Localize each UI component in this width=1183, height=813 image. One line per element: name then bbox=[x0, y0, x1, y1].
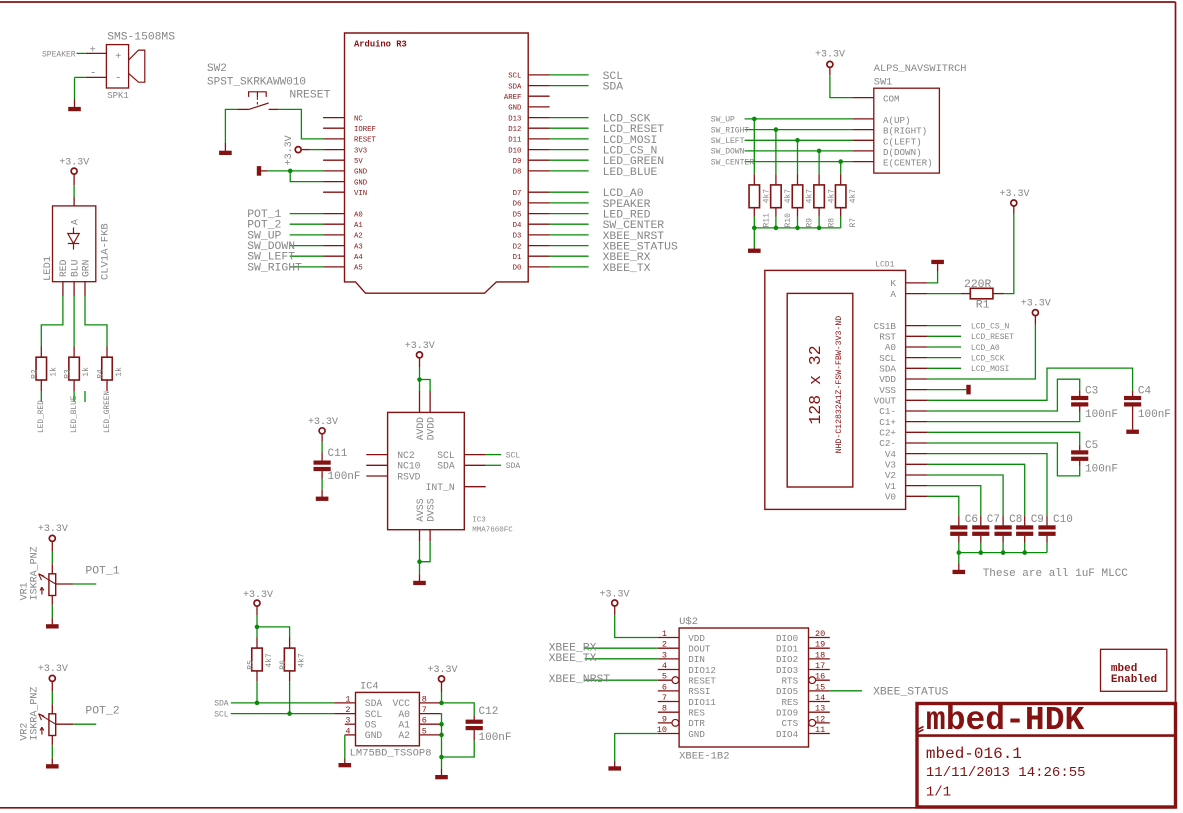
svg-text:RES: RES bbox=[688, 707, 705, 718]
wire +3.3V to VCC bbox=[441, 682, 443, 692]
wire LCD V4 to C10 bbox=[927, 454, 1047, 516]
junction bbox=[752, 226, 757, 231]
pin LED1 GRN bbox=[84, 282, 86, 296]
junction bbox=[795, 226, 800, 231]
pin SW1 row SW_CENTER bbox=[852, 161, 873, 163]
wire XBEE GND to ground bbox=[615, 734, 658, 762]
pin XBEE 20 DIO0 bbox=[809, 637, 830, 639]
svg-text:POT_2: POT_2 bbox=[85, 706, 119, 718]
wire VCC to C12 bbox=[441, 703, 474, 715]
svg-text:RTS: RTS bbox=[782, 675, 799, 686]
svg-text:K: K bbox=[890, 278, 896, 289]
svg-text:C2-: C2- bbox=[879, 438, 896, 449]
pin LCD1 VOUT bbox=[906, 399, 927, 401]
pin Arduino D2 bbox=[528, 245, 549, 247]
pin XBEE 13 DIO9 bbox=[809, 711, 830, 713]
svg-text:1: 1 bbox=[662, 629, 667, 639]
wire LED BLU to R3 bbox=[73, 296, 75, 347]
svg-text:4: 4 bbox=[662, 661, 667, 671]
pin SW1 COM bbox=[852, 97, 873, 99]
svg-text:CTS: CTS bbox=[782, 718, 799, 729]
wire R8 bottom bbox=[818, 217, 820, 228]
svg-text:A2: A2 bbox=[398, 730, 410, 741]
wire C6 bottom bbox=[958, 543, 960, 553]
wire + net label LCD_CS_N bbox=[550, 149, 589, 151]
pin XBEE 9 DTR bbox=[658, 722, 679, 724]
svg-text:SPST_SKRKAWW010: SPST_SKRKAWW010 bbox=[207, 77, 306, 89]
wire SDA bbox=[231, 702, 334, 704]
svg-text:mbed-016.1: mbed-016.1 bbox=[926, 745, 1022, 763]
svg-text:GND: GND bbox=[508, 105, 522, 113]
pin IC3 AVDD bbox=[419, 391, 421, 412]
ground bbox=[224, 143, 226, 151]
pin IC4 1 bbox=[334, 702, 355, 704]
svg-text:D3: D3 bbox=[513, 233, 522, 241]
pin XBEE 6 RSSI bbox=[658, 690, 679, 692]
wire C12 to ground rail bbox=[442, 741, 475, 758]
ground at Arduino GND bbox=[257, 166, 261, 176]
pin LCD1 V3 bbox=[906, 463, 927, 465]
wire SCL bbox=[231, 713, 334, 715]
svg-text:16: 16 bbox=[815, 672, 825, 682]
pin XBEE 4 DIO12 bbox=[658, 669, 679, 671]
svg-text:+: + bbox=[90, 46, 96, 57]
wire +3.3V to IC3 AVDD DVDD bbox=[419, 358, 421, 368]
junction bbox=[838, 159, 843, 164]
svg-text:1: 1 bbox=[345, 694, 350, 704]
wire + net label SW_LEFT bbox=[290, 255, 323, 257]
pin Arduino A2 bbox=[323, 234, 344, 236]
svg-text:COM: COM bbox=[883, 94, 900, 105]
svg-text:DIO2: DIO2 bbox=[776, 654, 798, 665]
wire + net label SW_DOWN bbox=[745, 150, 853, 152]
svg-text:SDA: SDA bbox=[506, 462, 521, 471]
svg-text:1k: 1k bbox=[49, 367, 58, 377]
svg-text:RESET: RESET bbox=[354, 137, 377, 145]
svg-text:A3: A3 bbox=[354, 243, 363, 251]
junction bbox=[817, 149, 822, 154]
svg-text:LED_GREEN: LED_GREEN bbox=[104, 391, 112, 433]
svg-text:SW_LEFT: SW_LEFT bbox=[711, 137, 745, 146]
svg-text:1k: 1k bbox=[82, 367, 91, 377]
svg-text:D10: D10 bbox=[508, 147, 521, 155]
pin XBEE 14 RES bbox=[809, 701, 830, 703]
wire + net label LCD_A0 bbox=[550, 191, 589, 193]
pin Arduino D3 bbox=[528, 234, 549, 236]
svg-text:128 x 32: 128 x 32 bbox=[806, 345, 825, 424]
supply +3.3V at Arduino 3V3 bbox=[295, 147, 301, 153]
wire A0 A1 A2 to ground bbox=[440, 714, 443, 769]
supply +3.3V at XBEE VDD bbox=[612, 600, 618, 606]
wire LCD V3 to C9 bbox=[927, 464, 1025, 516]
svg-text:D5: D5 bbox=[513, 211, 522, 219]
svg-text:C11: C11 bbox=[328, 448, 348, 460]
wire R10 bottom bbox=[775, 217, 777, 228]
svg-text:GND: GND bbox=[688, 729, 705, 740]
svg-text:C4: C4 bbox=[1138, 386, 1152, 398]
resistor R1 220R bbox=[961, 293, 970, 295]
svg-text:GND: GND bbox=[354, 169, 368, 177]
svg-text:2: 2 bbox=[662, 640, 667, 650]
pin LCD1 VDD bbox=[906, 378, 927, 380]
pin Arduino A3 bbox=[323, 245, 344, 247]
pin IC3 AVSS bbox=[419, 530, 421, 541]
svg-text:MMA7660FC: MMA7660FC bbox=[472, 526, 513, 534]
svg-text:NC2: NC2 bbox=[397, 450, 415, 461]
svg-text:IOREF: IOREF bbox=[354, 126, 376, 134]
svg-text:9: 9 bbox=[662, 714, 667, 724]
wire R5 to SDA bbox=[256, 681, 258, 703]
RGB LED LED1 CLV1A-FKB bbox=[42, 206, 111, 282]
wire R9 top bbox=[797, 140, 799, 174]
svg-text:DIN: DIN bbox=[688, 654, 705, 665]
wire LCD C1- to C3 bbox=[927, 379, 1080, 411]
ground bbox=[419, 574, 421, 581]
wire + net label SW_RIGHT bbox=[290, 266, 323, 268]
svg-text:SDA: SDA bbox=[214, 700, 229, 709]
svg-text:R1: R1 bbox=[976, 299, 990, 311]
pin XBEE 5 RESET bbox=[658, 679, 679, 681]
wire SPK1- to ground bbox=[75, 76, 86, 78]
wire + net label LCD_SCK bbox=[550, 117, 589, 119]
svg-text:LM75BD_TSSOP8: LM75BD_TSSOP8 bbox=[350, 748, 432, 760]
wire + net label POT_2 bbox=[73, 723, 96, 725]
pin Arduino IOREF bbox=[323, 127, 344, 129]
svg-text:R10: R10 bbox=[784, 213, 793, 228]
wire + net label XBEE_TX bbox=[550, 266, 589, 268]
svg-text:SCL: SCL bbox=[437, 450, 455, 461]
svg-text:NHD-C12832A1Z-FSW-FBW-3V3-ND: NHD-C12832A1Z-FSW-FBW-3V3-ND bbox=[835, 316, 844, 454]
svg-text:SCL: SCL bbox=[879, 353, 896, 364]
nav switch SW1 ALPS_NAVSWITRCH bbox=[874, 63, 967, 173]
module U$2 XBEE-1B2 bbox=[679, 616, 808, 762]
pin LCD1 V2 bbox=[906, 474, 927, 476]
svg-text:20: 20 bbox=[815, 629, 825, 639]
svg-text:+3.3V: +3.3V bbox=[284, 135, 295, 165]
capacitor C8 1uF bbox=[1002, 516, 1004, 525]
pin IC4 8 bbox=[419, 702, 440, 704]
switch SW2 SPST_SKRKAWW010 bbox=[207, 63, 306, 109]
svg-text:AVSS: AVSS bbox=[415, 498, 426, 521]
wire NRESET to Arduino RESET bbox=[278, 109, 323, 138]
svg-text:3V3: 3V3 bbox=[354, 147, 367, 155]
ground bbox=[966, 385, 970, 395]
svg-text:+3.3V: +3.3V bbox=[1021, 299, 1051, 310]
wire R1 to +3.3V bbox=[1004, 214, 1014, 294]
resistor R11 4k7 bbox=[753, 174, 755, 185]
pin IC3 NC10 bbox=[366, 464, 387, 466]
ground bbox=[344, 759, 346, 764]
svg-text:1/1: 1/1 bbox=[926, 785, 951, 801]
resistor R2 1k bbox=[40, 347, 42, 358]
wire LCD V0 to C6 bbox=[927, 496, 959, 516]
junction bbox=[439, 733, 444, 738]
svg-text:LCD_RESET: LCD_RESET bbox=[971, 333, 1014, 342]
svg-text:D11: D11 bbox=[508, 137, 522, 145]
wire C10 bottom bbox=[1046, 543, 1048, 553]
svg-text:8: 8 bbox=[422, 694, 427, 704]
pin Arduino A5 bbox=[323, 266, 344, 268]
wire + net label SW_DOWN bbox=[290, 245, 323, 247]
svg-text:A0: A0 bbox=[885, 342, 896, 353]
ground bbox=[753, 247, 755, 249]
svg-text:SW2: SW2 bbox=[207, 63, 227, 75]
svg-text:CLV1A-FKB: CLV1A-FKB bbox=[99, 223, 111, 280]
svg-text:C10: C10 bbox=[1053, 514, 1073, 526]
pin Arduino D0 bbox=[528, 266, 549, 268]
pin IC4 2 bbox=[334, 713, 355, 715]
svg-text:4k7: 4k7 bbox=[298, 653, 307, 668]
speaker SPK1 bbox=[90, 32, 175, 102]
svg-text:D13: D13 bbox=[508, 115, 521, 123]
junction bbox=[439, 755, 444, 760]
svg-text:AVDD: AVDD bbox=[415, 417, 426, 440]
potentiometer VR1 ISKRA_PNZ bbox=[19, 546, 73, 604]
wire LCD C2+ to C5 bbox=[927, 432, 1080, 445]
wire + net label LCD_RESET bbox=[550, 127, 589, 129]
module U$1 Arduino R3 bbox=[345, 33, 529, 293]
pin LCD1 C1- bbox=[906, 410, 927, 412]
wire +3.3V to LED1 bbox=[73, 174, 75, 185]
wire Arduino GND bbox=[268, 170, 323, 172]
svg-text:RESET: RESET bbox=[688, 675, 716, 686]
pin LCD1 V1 bbox=[906, 485, 927, 487]
pin LCD1 C2- bbox=[906, 442, 927, 444]
svg-text:DIO3: DIO3 bbox=[776, 665, 798, 676]
svg-text:SW_DOWN: SW_DOWN bbox=[711, 148, 745, 157]
pin Arduino SCL bbox=[528, 74, 549, 76]
svg-text:RSVD: RSVD bbox=[397, 471, 420, 482]
pin XBEE 11 DIO4 bbox=[809, 733, 830, 735]
wire + net label POT_1 bbox=[73, 583, 96, 585]
junction bbox=[417, 559, 422, 564]
svg-text:1k: 1k bbox=[115, 367, 124, 377]
pin Arduino D8 bbox=[528, 170, 549, 172]
wire +3.3V to VR2 bbox=[51, 682, 53, 692]
pin LED1 A bbox=[73, 197, 75, 206]
svg-text:11: 11 bbox=[815, 725, 825, 735]
pin Arduino A4 bbox=[323, 255, 344, 257]
pin Arduino 3V3 bbox=[323, 149, 344, 151]
svg-text:13: 13 bbox=[815, 704, 825, 714]
svg-text:+3.3V: +3.3V bbox=[59, 158, 89, 169]
wire R10 top bbox=[775, 130, 777, 175]
supply +3.3V at LCD VDD bbox=[1034, 316, 1036, 325]
svg-text:XBEE_TX: XBEE_TX bbox=[603, 263, 651, 275]
pin Arduino D11 bbox=[528, 138, 549, 140]
svg-text:IC4: IC4 bbox=[360, 680, 379, 692]
svg-text:A2: A2 bbox=[354, 233, 363, 241]
svg-text:+3.3V: +3.3V bbox=[1000, 189, 1030, 200]
junction bbox=[439, 701, 444, 706]
wire + net label LED_RED bbox=[550, 213, 589, 215]
svg-text:NRESET: NRESET bbox=[289, 89, 330, 101]
svg-text:SW1: SW1 bbox=[874, 77, 893, 89]
svg-text:DIO9: DIO9 bbox=[776, 707, 798, 718]
svg-text:LCD_CS_N: LCD_CS_N bbox=[971, 322, 1010, 331]
svg-text:SDA: SDA bbox=[603, 82, 624, 94]
svg-text:D1: D1 bbox=[513, 254, 522, 262]
svg-text:NC: NC bbox=[354, 115, 363, 123]
ground bbox=[1126, 430, 1139, 434]
wire + net label LCD_MOSI bbox=[927, 367, 961, 369]
svg-text:220R: 220R bbox=[964, 279, 992, 291]
svg-text:+3.3V: +3.3V bbox=[815, 50, 845, 61]
resistor R10 4k7 bbox=[775, 174, 777, 185]
accelerometer IC3 MMA7660FC bbox=[388, 412, 514, 534]
pin LCD1 VSS bbox=[906, 389, 927, 391]
pin Arduino RESET bbox=[323, 138, 344, 140]
svg-text:DIO1: DIO1 bbox=[776, 643, 799, 654]
pin Arduino GND bbox=[528, 106, 549, 108]
wire LCD V2 to C8 bbox=[927, 475, 1003, 516]
svg-text:B(RIGHT): B(RIGHT) bbox=[883, 126, 927, 137]
junction bbox=[287, 711, 292, 716]
svg-text:+3.3V: +3.3V bbox=[308, 417, 338, 428]
svg-text:INT_N: INT_N bbox=[426, 482, 455, 493]
wire and net label LED_GREEN bbox=[84, 391, 86, 402]
supply +3.3V LED1 bbox=[71, 168, 77, 174]
wire LED GRN to R4 bbox=[85, 296, 107, 347]
wire LED RED to R2 bbox=[41, 296, 63, 347]
pin Arduino D5 bbox=[528, 213, 549, 215]
pin Arduino VIN bbox=[323, 191, 344, 193]
wire + net label LCD_MOSI bbox=[550, 138, 589, 140]
wire R6 to SCL bbox=[289, 681, 291, 714]
svg-text:+3.3V: +3.3V bbox=[243, 590, 273, 601]
pin LCD1 K bbox=[906, 282, 927, 284]
junction bbox=[774, 226, 779, 231]
svg-text:LED1: LED1 bbox=[42, 256, 54, 281]
svg-text:2: 2 bbox=[345, 705, 350, 715]
svg-text:SDA: SDA bbox=[365, 698, 383, 709]
pin LCD1 RST bbox=[906, 335, 927, 337]
pin XBEE 7 DIO11 bbox=[658, 701, 679, 703]
pin LED1 RED bbox=[62, 282, 64, 296]
svg-text:A0: A0 bbox=[354, 211, 363, 219]
junction bbox=[1001, 550, 1006, 555]
resistor R3 1k bbox=[73, 347, 75, 358]
svg-text:BLU: BLU bbox=[69, 259, 80, 277]
wire Arduino GND2 bbox=[290, 171, 323, 182]
svg-text:R9: R9 bbox=[806, 218, 815, 228]
wire capacitor ground rail bbox=[959, 552, 1047, 554]
pin Arduino SDA bbox=[528, 85, 549, 87]
junction bbox=[979, 550, 984, 555]
svg-text:SDA: SDA bbox=[879, 364, 896, 375]
wire + net label LCD_CS_N bbox=[927, 325, 961, 327]
wire and net label LED_RED bbox=[40, 391, 42, 402]
title block bbox=[917, 702, 1176, 807]
svg-text:A(UP): A(UP) bbox=[883, 115, 911, 126]
svg-text:V3: V3 bbox=[885, 460, 896, 471]
supply +3.3V at R1 bbox=[1013, 206, 1015, 214]
svg-text:LED_BLUE: LED_BLUE bbox=[603, 167, 658, 179]
pin Arduino D13 bbox=[528, 117, 549, 119]
svg-text:D2: D2 bbox=[513, 243, 522, 251]
supply +3.3V at VR1 bbox=[49, 535, 55, 541]
wire AVSS DVSS to ground bbox=[420, 541, 431, 562]
pin SPK1 - bbox=[86, 76, 107, 78]
junction bbox=[288, 169, 293, 174]
svg-text:100nF: 100nF bbox=[479, 732, 512, 744]
wire +3.3V to XBEE pin1 bbox=[614, 606, 616, 614]
wire LCD V1 to C7 bbox=[927, 486, 981, 516]
svg-text:18: 18 bbox=[815, 650, 825, 660]
svg-text:D0: D0 bbox=[513, 265, 522, 273]
pin LCD1 V0 bbox=[906, 495, 927, 497]
ground bbox=[931, 260, 944, 264]
svg-text:D12: D12 bbox=[508, 126, 521, 134]
pin XBEE 2 DOUT bbox=[658, 647, 679, 649]
svg-text:C(LEFT): C(LEFT) bbox=[883, 136, 922, 147]
svg-text:Enabled: Enabled bbox=[1111, 674, 1157, 686]
pin Arduino D12 bbox=[528, 127, 549, 129]
capacitor C7 1uF bbox=[980, 516, 982, 525]
pin Arduino D9 bbox=[528, 159, 549, 161]
svg-text:RSSI: RSSI bbox=[688, 686, 710, 697]
svg-text:D9: D9 bbox=[513, 158, 522, 166]
pin XBEE 19 DIO1 bbox=[809, 647, 830, 649]
svg-text:-: - bbox=[115, 72, 122, 84]
pin Arduino A1 bbox=[323, 223, 344, 225]
wire rail to ground bbox=[958, 553, 960, 564]
resistor R8 4k7 bbox=[818, 174, 820, 185]
pin IC4 5 bbox=[419, 734, 440, 736]
svg-text:14: 14 bbox=[815, 693, 825, 703]
display LCD1 NHD-C12832 bbox=[765, 261, 906, 510]
wire + net label XBEE_STATUS bbox=[830, 690, 862, 692]
pin XBEE 12 CTS bbox=[809, 722, 830, 724]
pin IC3 SCL + wire + label SCL bbox=[464, 454, 485, 456]
pin Arduino GND bbox=[323, 170, 344, 172]
capacitor C6 1uF bbox=[958, 516, 960, 525]
wire resistor ground rail bbox=[754, 227, 840, 229]
wire C7 bottom bbox=[980, 543, 982, 553]
svg-text:D(DOWN): D(DOWN) bbox=[883, 147, 922, 158]
svg-text:+3.3V: +3.3V bbox=[405, 341, 435, 352]
svg-text:+: + bbox=[115, 52, 121, 63]
svg-text:LED_BLUE: LED_BLUE bbox=[71, 395, 79, 433]
pin Arduino A0 bbox=[323, 213, 344, 215]
svg-text:6: 6 bbox=[662, 682, 667, 692]
svg-text:D7: D7 bbox=[513, 190, 522, 198]
pin Arduino AREF bbox=[528, 95, 549, 97]
svg-text:V0: V0 bbox=[885, 492, 896, 503]
svg-text:SW_UP: SW_UP bbox=[711, 116, 735, 125]
svg-text:C6: C6 bbox=[965, 514, 978, 526]
resistor R9 4k7 bbox=[797, 174, 799, 185]
junction bbox=[255, 625, 260, 630]
svg-text:XBEE_TX: XBEE_TX bbox=[549, 653, 597, 665]
svg-text:+3.3V: +3.3V bbox=[38, 664, 68, 675]
ground bbox=[614, 761, 616, 766]
pin IC3 RSVD bbox=[366, 475, 387, 477]
svg-text:DOUT: DOUT bbox=[688, 643, 711, 654]
junction bbox=[255, 701, 260, 706]
svg-text:3: 3 bbox=[662, 650, 667, 660]
junction bbox=[957, 550, 962, 555]
svg-text:17: 17 bbox=[815, 661, 825, 671]
resistor R7 4k7 bbox=[840, 174, 842, 185]
wire C8 bottom bbox=[1002, 543, 1004, 553]
pin Arduino D7 bbox=[528, 191, 549, 193]
wire + net label XBEE_NRST bbox=[585, 679, 658, 681]
wire + net label XBEE_RX bbox=[550, 255, 589, 257]
wire IC4 GND pin to ground bbox=[344, 735, 346, 759]
supply +3.3V at C11 bbox=[319, 428, 325, 434]
svg-text:SPEAKER: SPEAKER bbox=[42, 50, 76, 59]
